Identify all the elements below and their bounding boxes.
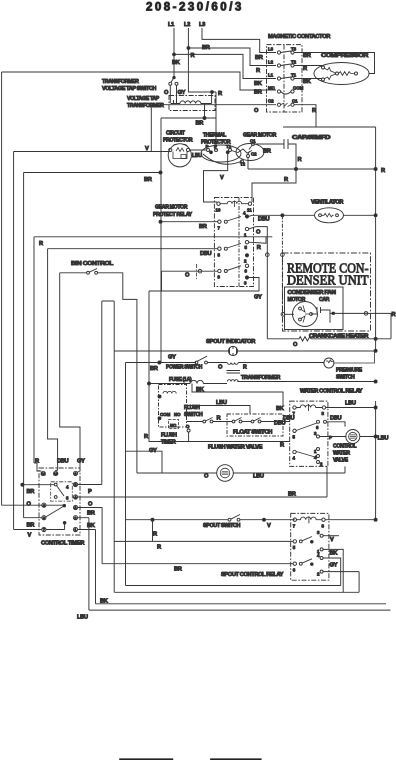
svg-text:TRANSFORMER: TRANSFORMER (241, 375, 281, 381)
wire BR far-left loop top (2, 72, 276, 90)
wire BK pin1 down to bus (323, 549, 343, 592)
svg-text:R: R (218, 91, 222, 97)
svg-text:C1: C1 (250, 139, 256, 144)
svg-text:PROTECT RELAY: PROTECT RELAY (153, 212, 193, 218)
svg-text:CONTROL TIMER: CONTROL TIMER (41, 541, 85, 547)
svg-text:PROTECTOR: PROTECTOR (163, 138, 193, 144)
svg-text:MC: MC (268, 86, 276, 91)
wire BK from pin2 (78, 518, 89, 610)
svg-text:BK: BK (172, 60, 181, 66)
svg-text:BK: BK (254, 81, 263, 87)
svg-text:BR: BR (87, 511, 95, 517)
svg-text:L1: L1 (168, 22, 174, 28)
svg-text:DBU: DBU (330, 416, 342, 422)
svg-text:BK: BK (196, 387, 205, 393)
svg-text:DENSER UNIT: DENSER UNIT (287, 273, 369, 288)
svg-text:DBU: DBU (274, 421, 286, 427)
svg-text:11: 11 (247, 208, 252, 213)
svg-text:R: R (144, 434, 148, 440)
svg-text:WATER: WATER (333, 451, 350, 457)
wire GY into pin6 (77, 471, 80, 473)
wire R line y169 (248, 168, 376, 170)
svg-text:NO: NO (174, 412, 181, 417)
svg-text:9: 9 (218, 275, 221, 280)
svg-text:COM: COM (293, 86, 304, 91)
svg-text:6: 6 (293, 567, 296, 572)
WCR pins 3/1 row (317, 435, 320, 438)
fuse F1 (149, 380, 227, 383)
svg-text:LBU: LBU (345, 401, 356, 407)
svg-text:10: 10 (216, 208, 221, 213)
wire DBU pin4 to ventilator line (249, 215, 315, 216)
wire R riser to pin 12 (34, 463, 41, 471)
wire LBU to thermal protector (190, 149, 207, 151)
timer pin 1 (73, 527, 77, 531)
svg-text:4: 4 (293, 456, 296, 461)
wire BR left pin8 (24, 517, 42, 519)
svg-text:10: 10 (54, 471, 58, 476)
relay pin 3 (245, 276, 248, 279)
svg-text:FLOAT SWITCH: FLOAT SWITCH (233, 430, 273, 436)
svg-text:7: 7 (43, 527, 45, 532)
svg-text:O: O (88, 502, 93, 508)
svg-text:V: V (267, 523, 271, 529)
svg-text:O: O (218, 365, 223, 371)
svg-text:CAP.: CAP. (319, 297, 330, 303)
svg-text:SWITCH: SWITCH (336, 375, 355, 381)
svg-text:BK: BK (100, 599, 109, 605)
wire ventilator to R bus (344, 214, 376, 216)
relay pin 2 (245, 254, 248, 257)
voltage tap switch SW1 (169, 82, 172, 85)
svg-text:NC: NC (170, 423, 177, 428)
svg-text:6: 6 (316, 425, 319, 430)
svg-text:R: R (39, 241, 43, 247)
svg-text:R: R (284, 177, 288, 183)
svg-text:WATER CONTROL RELAY: WATER CONTROL RELAY (300, 389, 363, 395)
timer pin 10 (54, 471, 58, 475)
svg-text:TIMER: TIMER (161, 440, 176, 446)
svg-text:BR: BR (144, 177, 152, 183)
svg-text:R: R (153, 532, 157, 538)
relay pin5 row (114, 540, 293, 542)
relay pins 4/2 (320, 557, 323, 560)
svg-text:R: R (191, 53, 195, 59)
svg-text:DBU: DBU (57, 459, 69, 465)
svg-text:FLUSH WATER VALVE: FLUSH WATER VALVE (208, 445, 263, 451)
wire V left line (14, 152, 169, 530)
svg-text:BIN CONTROL: BIN CONTROL (71, 261, 114, 267)
bus B y592.3 (114, 572, 359, 593)
wire GY to flush valve line (126, 451, 163, 473)
svg-text:CAP.65MFD: CAP.65MFD (292, 135, 331, 141)
svg-text:O: O (293, 342, 298, 348)
timer pin 4 (73, 495, 77, 499)
footer line 2 (210, 758, 262, 760)
svg-text:BR: BR (196, 121, 204, 127)
wire T1 to compressor (294, 78, 322, 80)
wire L3 feed (202, 28, 276, 53)
svg-text:4: 4 (243, 211, 246, 216)
wire T3 to compressor (294, 53, 374, 74)
wire BR from pin3 down right (78, 508, 103, 564)
wire pin8 to LBU bus (326, 401, 376, 520)
svg-text:SPOUT CONTROL RELAY: SPOUT CONTROL RELAY (221, 572, 284, 578)
wire O from pin4 long right (78, 466, 327, 497)
svg-text:CIRCUIT: CIRCUIT (166, 131, 186, 137)
timer pin 6 (73, 471, 77, 475)
svg-text:O: O (254, 108, 259, 114)
timer pin 7 (42, 527, 46, 531)
svg-text:7: 7 (293, 411, 296, 416)
control water valve V2 (346, 430, 360, 444)
svg-text:CONTROL: CONTROL (333, 444, 357, 450)
wire GY pin4 down (323, 558, 341, 586)
svg-text:BR: BR (202, 45, 210, 51)
left vertical bus lines (1, 72, 3, 505)
wire T2 to compressor (294, 65, 322, 67)
wire R stub down (152, 520, 154, 542)
svg-text:BR: BR (27, 489, 35, 495)
timer inner switch box (51, 482, 73, 501)
svg-text:208-230/60/3: 208-230/60/3 (146, 2, 244, 14)
svg-text:BR: BR (254, 90, 262, 96)
svg-text:GY: GY (77, 459, 85, 465)
svg-text:FUSE (1A): FUSE (1A) (169, 377, 192, 383)
svg-text:BR: BR (199, 224, 207, 230)
wire C1 to R bus (294, 105, 316, 127)
svg-text:L2: L2 (184, 22, 190, 28)
svg-text:L3: L3 (268, 47, 274, 52)
svg-text:BR: BR (303, 53, 311, 59)
svg-text:C2: C2 (268, 99, 274, 104)
svg-text:5: 5 (293, 545, 296, 550)
svg-text:GY: GY (330, 563, 338, 569)
svg-text:R: R (217, 416, 221, 422)
wire BK from pin1 (78, 530, 96, 604)
wire GY from pin3 (149, 278, 259, 442)
svg-text:MAGNETIC CONTACTOR: MAGNETIC CONTACTOR (268, 34, 330, 40)
svg-text:GY: GY (168, 355, 176, 361)
timer pin 2 (73, 516, 77, 520)
svg-text:PRESSURE: PRESSURE (336, 368, 363, 374)
svg-text:8: 8 (322, 524, 325, 529)
relay pin 1 (245, 227, 248, 230)
wire valve to LBU bus (360, 436, 376, 438)
svg-text:R: R (280, 443, 284, 449)
relay pin 5 (245, 241, 248, 244)
wire C2 drop (247, 158, 249, 170)
svg-text:R: R (256, 68, 260, 74)
svg-text:4: 4 (317, 553, 320, 558)
spout control relay K3 (291, 513, 329, 580)
svg-text:VOLTAGE TAP: VOLTAGE TAP (127, 96, 160, 102)
svg-text:POWER SWITCH: POWER SWITCH (166, 365, 203, 371)
wire BR tap down (161, 107, 216, 363)
svg-text:GEAR MOTOR: GEAR MOTOR (155, 205, 188, 211)
flush water valve V1 (137, 466, 345, 473)
svg-text:2: 2 (244, 259, 247, 264)
condenser fan motor box (285, 287, 344, 330)
connector on O wire (266, 253, 270, 257)
svg-text:8: 8 (218, 253, 221, 258)
condenser fan motor M3 (293, 302, 318, 327)
wire BR left line (24, 173, 161, 518)
wire LBU line (187, 406, 251, 415)
svg-text:3: 3 (317, 530, 320, 535)
capacitor cap (311, 307, 330, 323)
svg-text:V: V (330, 537, 334, 543)
wire pin11 feed from R (252, 169, 296, 202)
svg-text:BK: BK (330, 551, 339, 557)
svg-text:BK: BK (87, 523, 96, 529)
svg-text:COM: COM (160, 412, 171, 417)
svg-text:VENTILATOR: VENTILATOR (311, 200, 344, 206)
wire BK secondary to WCR pin7 (192, 384, 283, 407)
relay coil pins 10-11 (217, 202, 220, 205)
svg-text:O: O (185, 273, 190, 279)
wire O to pin9 with connector (162, 271, 218, 291)
wire O from pin1 down to crankcase (249, 227, 268, 339)
wire V pin3 (323, 535, 339, 537)
svg-text:COMPRESSOR: COMPRESSOR (321, 53, 368, 59)
wire V from T2/thermal to pin10 (204, 152, 228, 202)
wire R down to thermal protector (215, 92, 217, 150)
svg-text:C2: C2 (251, 152, 257, 157)
svg-text:P: P (88, 489, 92, 495)
svg-text:BK: BK (303, 79, 312, 85)
svg-text:7: 7 (293, 524, 296, 529)
svg-text:DBU: DBU (200, 251, 212, 257)
svg-text:FLUSH: FLUSH (184, 405, 200, 411)
svg-text:L2: L2 (268, 60, 274, 65)
timer pin 3 (73, 505, 77, 509)
WCR coil pins 7-8 (293, 406, 296, 409)
WCR pin5 (293, 429, 296, 432)
relay pin 8 row (218, 247, 221, 250)
svg-text:LBU: LBU (378, 436, 389, 442)
relay pin 9 row (218, 269, 221, 272)
wire L1 feed (174, 28, 276, 79)
wire P from pin5 (78, 301, 115, 485)
svg-text:BR: BR (288, 492, 296, 498)
svg-text:7: 7 (218, 226, 221, 231)
wire O left to pin9 (2, 504, 42, 506)
svg-text:P: P (329, 435, 332, 440)
svg-text:O: O (27, 502, 32, 508)
svg-text:5: 5 (245, 245, 248, 250)
svg-text:GY: GY (254, 295, 262, 301)
timer pin 8 (42, 516, 46, 520)
relay pin6 row BR (102, 563, 293, 565)
svg-text:CONDENSER FAN: CONDENSER FAN (288, 290, 337, 296)
svg-text:T2: T2 (240, 162, 246, 167)
relay coil pins 7-8 (293, 518, 296, 521)
svg-text:6: 6 (245, 269, 248, 274)
remote condenser unit box (283, 253, 371, 331)
svg-text:LBU: LBU (77, 615, 88, 621)
svg-text:R: R (157, 545, 161, 551)
power switch line (126, 363, 228, 586)
wire DBU to pin8 (48, 248, 218, 250)
svg-text:FLUSH: FLUSH (161, 433, 177, 439)
svg-text:TRANSFORMER: TRANSFORMER (127, 103, 164, 109)
flush timer box (159, 385, 187, 428)
float switch box (227, 414, 283, 436)
svg-text:GEAR MOTOR: GEAR MOTOR (243, 133, 277, 139)
svg-text:SWITCH: SWITCH (184, 412, 203, 418)
svg-text:8: 8 (322, 411, 325, 416)
voltage tap transformer T1 (169, 96, 215, 111)
svg-text:SPOUT SWITCH: SPOUT SWITCH (203, 523, 241, 529)
svg-text:VOLTAGE TAP SWITCH: VOLTAGE TAP SWITCH (102, 86, 157, 92)
svg-text:TRANSFORMER: TRANSFORMER (102, 79, 139, 85)
svg-text:L1: L1 (268, 73, 274, 78)
pressure switch PS1 (324, 358, 334, 368)
wire DBU down to condenser fan (281, 215, 283, 312)
wire BR into timer switch (22, 484, 54, 486)
timer pin 5 (73, 482, 77, 486)
svg-text:V: V (28, 533, 32, 539)
svg-text:BR: BR (255, 55, 263, 61)
svg-text:O: O (204, 474, 209, 480)
svg-text:BK: BK (276, 406, 285, 412)
svg-text:L3: L3 (199, 22, 205, 28)
svg-text:SPOUT INDICATOR: SPOUT INDICATOR (206, 339, 255, 345)
wire O line from contactor C2 (151, 105, 276, 152)
svg-text:VALVE: VALVE (333, 458, 349, 464)
svg-text:R: R (381, 168, 385, 174)
wire pin8 to LBU bus (325, 519, 375, 521)
svg-text:V: V (145, 146, 149, 152)
svg-text:R: R (298, 157, 302, 163)
svg-text:R: R (303, 66, 307, 72)
svg-text:3: 3 (66, 496, 69, 501)
timer pin 12 (41, 471, 45, 475)
svg-text:2: 2 (320, 462, 323, 467)
relay pin 4 (245, 215, 248, 218)
svg-text:V: V (220, 175, 224, 181)
svg-text:O: O (256, 230, 261, 236)
wire fan to R corner (330, 313, 391, 338)
wire top R bus horizontal (283, 127, 376, 350)
wire R line y236.8 (34, 237, 272, 463)
svg-text:BR: BR (174, 567, 182, 573)
wire L2 feed (188, 28, 276, 92)
timer switch blade 8-9 (46, 505, 64, 517)
svg-text:4: 4 (66, 485, 69, 490)
svg-text:BR: BR (27, 523, 35, 529)
wire GY lamp line (114, 351, 375, 592)
svg-text:DBU: DBU (258, 217, 270, 223)
footer line 1 (119, 758, 173, 760)
svg-text:3: 3 (244, 281, 247, 286)
WCR pin6 contact row DBU (317, 420, 320, 423)
svg-text:R: R (257, 245, 261, 251)
relay pin 7 contact (218, 220, 221, 223)
svg-text:LBU: LBU (253, 474, 264, 480)
svg-text:O: O (164, 90, 169, 96)
relay pins 3/1 (320, 534, 323, 537)
bus BK y603.8 (96, 603, 387, 605)
bus LBU y610.1 (89, 609, 391, 611)
svg-text:5: 5 (293, 435, 296, 440)
bottom buses (126, 585, 341, 587)
svg-text:O: O (186, 424, 190, 429)
nested left verticals (48, 249, 58, 471)
svg-text:2: 2 (317, 572, 320, 577)
control timer box (39, 468, 80, 535)
wire DBU jog into pin10 (56, 469, 58, 472)
wire BR to pin7 (161, 221, 218, 223)
svg-text:THERMAL: THERMAL (203, 133, 227, 139)
wire pin7 stub (14, 523, 65, 530)
svg-text:BR: BR (263, 149, 271, 155)
svg-text:BR: BR (150, 366, 158, 372)
bimetal arc (203, 154, 242, 164)
timer pin 9 (42, 503, 46, 507)
WCR lower pins 4/2 (293, 450, 296, 453)
wire R line to WCR (149, 432, 290, 442)
wire R to pressure switch (246, 362, 324, 364)
svg-text:R: R (243, 365, 247, 371)
relay pin 6 (245, 264, 248, 267)
svg-text:R: R (392, 312, 396, 318)
wire pin3 to control water valve (320, 436, 347, 438)
svg-text:R: R (312, 108, 316, 114)
